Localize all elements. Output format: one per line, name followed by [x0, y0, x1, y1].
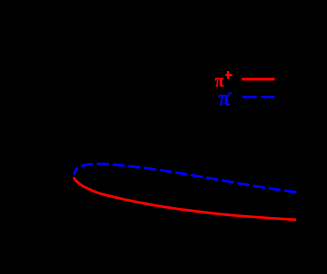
blue dashed curve (pi-) [74, 164, 296, 192]
legend red line sample [242, 78, 275, 81]
svg-text:π: π [218, 86, 230, 111]
red solid curve (pi+) [74, 177, 296, 219]
legend blue dashed line sample [242, 96, 256, 99]
